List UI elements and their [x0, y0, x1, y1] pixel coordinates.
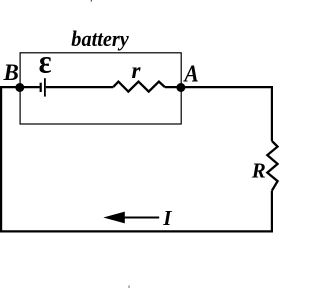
svg-text:ε: ε	[39, 43, 52, 79]
resistor r zigzag	[113, 82, 165, 92]
node A junction dot	[176, 83, 185, 92]
current arrow I: head	[103, 212, 125, 224]
svg-text:B: B	[3, 60, 19, 85]
svg-text:battery: battery	[71, 27, 129, 51]
battery cell EMF: short plate (negative)	[40, 83, 42, 92]
wire: left side and top-left segment to battery	[1, 87, 40, 232]
stray mark bottom	[129, 285, 130, 288]
battery enclosure box	[20, 53, 181, 124]
wire: resistor r through node A to top-right corner and down to R	[165, 87, 272, 141]
wire: R to bottom-right corner and bottom side	[0, 191, 272, 232]
svg-text:r: r	[132, 58, 142, 83]
wire: battery to resistor r	[46, 86, 113, 88]
current arrow I: shaft	[124, 217, 159, 219]
svg-text:I: I	[162, 206, 172, 230]
svg-text:R: R	[251, 158, 266, 182]
svg-text:A: A	[183, 59, 199, 87]
battery cell EMF: long plate (positive)	[44, 78, 46, 96]
node B junction dot	[15, 83, 24, 92]
resistor R zigzag	[267, 141, 277, 191]
stray mark top	[91, 0, 92, 2]
